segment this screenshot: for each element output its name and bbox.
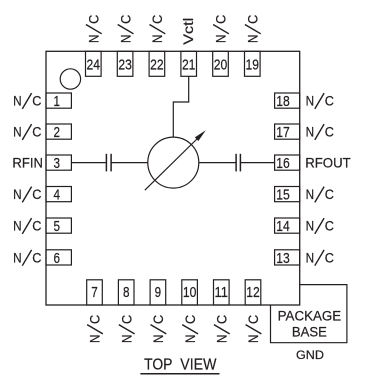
pin 11 label N/C [214, 315, 230, 343]
pin 1 [46, 93, 71, 110]
svg-text:Vctl: Vctl [180, 18, 196, 45]
svg-text:5: 5 [53, 219, 60, 235]
svg-text:VIEW: VIEW [180, 357, 217, 374]
pin 7 [87, 280, 103, 305]
svg-text:23: 23 [118, 57, 132, 73]
pin 10 label N/C [182, 315, 198, 343]
pin 5 [46, 218, 71, 235]
pin 1 indicator [60, 69, 80, 89]
pin 10 [182, 280, 198, 305]
pin 3 [46, 155, 71, 172]
pin 14 label N/C [306, 218, 334, 234]
pin 21 [181, 51, 197, 76]
wire C1 to attenuator [112, 162, 148, 164]
pin 24 [86, 51, 102, 76]
title underline [140, 373, 219, 375]
pin 22 [149, 51, 165, 76]
pin 3 label RFIN [12, 155, 43, 171]
capacitor C1 [106, 154, 111, 172]
pin 21 label Vctl [180, 18, 196, 45]
svg-text:RFOUT: RFOUT [305, 155, 351, 171]
pin 1 label N/C [13, 93, 41, 109]
svg-text:18: 18 [276, 94, 290, 110]
pin 4 label N/C [13, 186, 41, 202]
svg-text:20: 20 [214, 57, 228, 73]
pin 18 [275, 93, 300, 110]
title TOP VIEW [144, 357, 217, 374]
pin 20 [213, 51, 229, 76]
pin 16 label RFOUT [305, 155, 351, 171]
svg-text:12: 12 [246, 285, 260, 301]
pin 12 [245, 280, 261, 305]
svg-text:17: 17 [276, 125, 290, 141]
pin 23 [117, 51, 133, 76]
pin 16 [275, 155, 300, 172]
svg-text:21: 21 [182, 57, 196, 73]
pin 15 label N/C [306, 186, 334, 202]
pin 19 label N/C [245, 15, 261, 43]
svg-text:1: 1 [53, 94, 60, 110]
package base pad [271, 285, 347, 343]
pin 20 label N/C [213, 15, 229, 43]
svg-text:2: 2 [53, 125, 60, 141]
pin 14 [275, 218, 300, 235]
GND label [296, 348, 324, 362]
wire C2 to RFOUT [241, 162, 275, 164]
pin 6 [46, 250, 71, 267]
svg-text:8: 8 [123, 285, 130, 301]
pin 22 label N/C [149, 15, 165, 43]
pin 6 label N/C [13, 250, 41, 266]
svg-text:RFIN: RFIN [12, 155, 43, 171]
svg-text:BASE: BASE [292, 324, 327, 339]
svg-text:4: 4 [53, 188, 60, 204]
svg-text:6: 6 [53, 251, 60, 267]
pin 5 label N/C [13, 218, 41, 234]
pin 17 [275, 124, 300, 141]
wire RFIN to C1 [71, 162, 106, 164]
pin 9 [150, 280, 166, 305]
pin 19 [245, 51, 261, 76]
svg-text:15: 15 [276, 188, 290, 204]
pin 2 label N/C [13, 124, 41, 140]
pin 2 [46, 124, 71, 141]
wire attenuator to C2 [199, 162, 236, 164]
pin 13 label N/C [306, 250, 334, 266]
wire Vctl [173, 76, 188, 137]
capacitor C2 [236, 154, 240, 172]
pin 18 label N/C [306, 93, 334, 109]
svg-text:16: 16 [276, 156, 290, 172]
svg-text:13: 13 [276, 251, 290, 267]
package outline [46, 51, 300, 305]
svg-text:TOP: TOP [144, 357, 172, 374]
pin 24 label N/C [86, 15, 102, 43]
svg-text:3: 3 [53, 156, 60, 172]
svg-text:7: 7 [91, 285, 98, 301]
pin 8 label N/C [118, 315, 134, 343]
pin 13 [275, 250, 300, 267]
svg-text:22: 22 [150, 57, 164, 73]
pin 17 label N/C [306, 124, 334, 140]
pin 8 [118, 280, 134, 305]
pin 23 label N/C [117, 15, 133, 43]
pin 11 [214, 280, 230, 305]
svg-text:10: 10 [183, 285, 197, 301]
pin 12 label N/C [245, 315, 261, 343]
svg-text:PACKAGE: PACKAGE [278, 309, 342, 324]
pin 7 label N/C [87, 315, 103, 343]
svg-text:19: 19 [246, 57, 260, 73]
pin 4 [46, 187, 71, 204]
svg-text:11: 11 [215, 285, 229, 301]
svg-text:GND: GND [296, 348, 324, 362]
svg-text:14: 14 [276, 219, 290, 235]
pin 15 [275, 187, 300, 204]
svg-text:24: 24 [87, 57, 101, 73]
pin 9 label N/C [150, 315, 166, 343]
svg-text:9: 9 [155, 285, 162, 301]
variable attenuator U1 [145, 130, 206, 190]
